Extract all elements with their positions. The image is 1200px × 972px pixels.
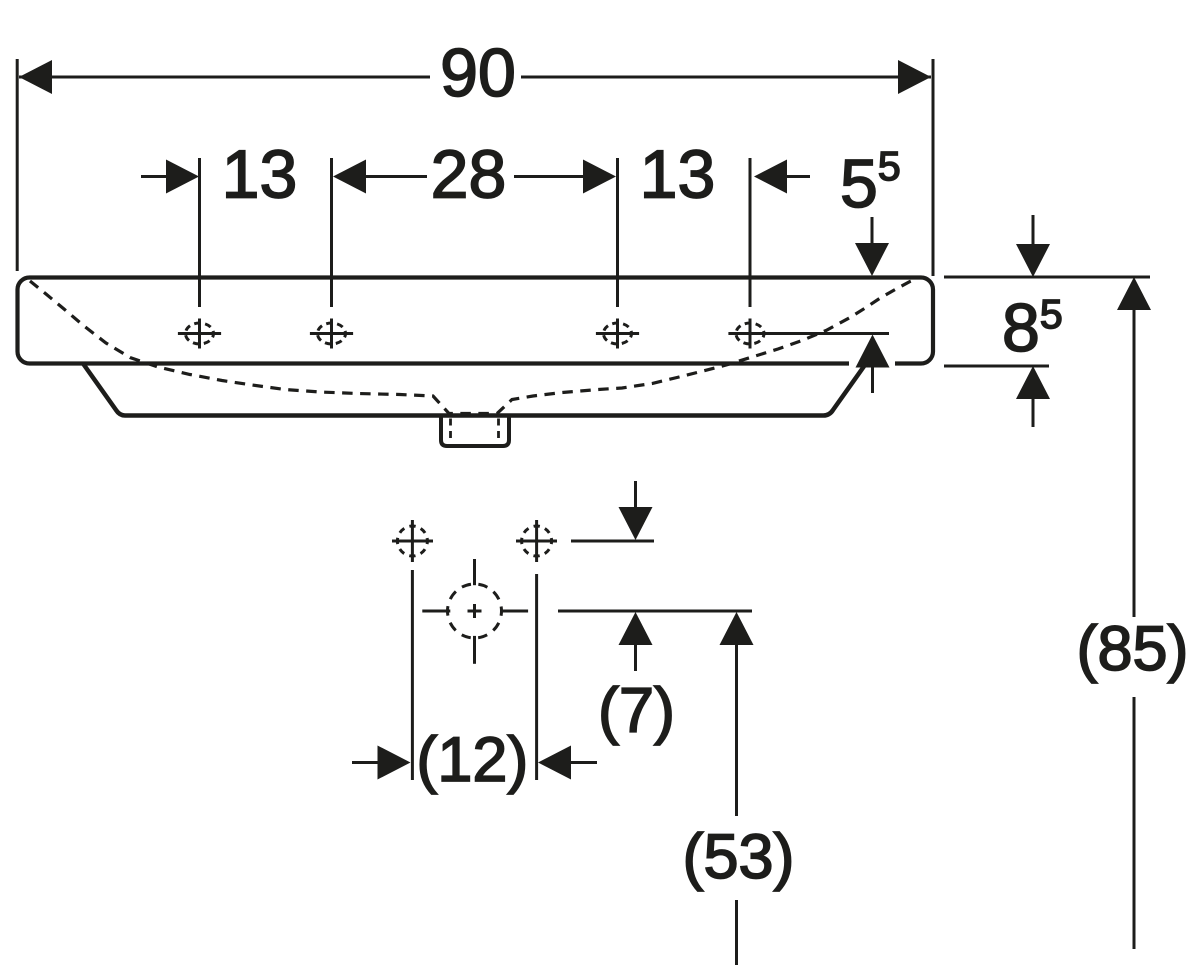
extension line tap hole 1 [198,158,201,307]
rim top reference line right [944,276,1150,279]
svg-text:13: 13 [222,137,298,213]
dim 85 line upper segment [1133,308,1136,617]
dim 53 up arrow [720,612,754,645]
siphon hole [422,559,528,664]
dim 90 left extension line [16,59,19,271]
extension line tap hole 2 [330,158,333,307]
dim 53 line upper segment [735,643,738,816]
dim 28 right arrow [583,160,616,194]
dim 28 right tail [514,175,585,178]
dim 85 up arrow [1117,277,1151,310]
dim 5.5 down arrow [855,243,889,276]
mounting holes reference line [571,540,654,543]
svg-text:(12): (12) [416,725,528,795]
siphon reference line [558,610,752,613]
drain spout [441,416,509,447]
dim 7 down arrow tail [634,481,637,510]
dim 90 arrow right [898,60,931,94]
dim 5.5 up arrow [856,335,890,368]
basin interior dashed curve [30,279,917,414]
dim 7 down arrow [619,507,653,540]
dim 12 right arrow tail [569,761,597,764]
dim 85 line lower segment [1133,697,1136,949]
dim 8.5 down arrow tail [1032,215,1035,247]
svg-text:(85): (85) [1076,614,1188,684]
dim 8.5 up arrow tail [1032,397,1035,427]
drain dashed line right [497,419,500,444]
mounting hole left [392,520,433,562]
dim 12 right arrow [538,746,571,780]
svg-text:85: 85 [1002,290,1063,366]
dim 12 left arrow [378,746,411,780]
dim 5.5 down arrow tail [871,217,874,246]
mounting hole right [516,520,557,562]
svg-text:(53): (53) [682,822,794,892]
dim 28 left tail [364,175,427,178]
dim 28 left arrow [333,160,366,194]
mounting hole right extension line [535,574,538,780]
dim 53 line lower segment [735,900,738,965]
dim 13 left arrow tail [141,175,168,178]
tap hole 4 [736,319,764,349]
dim 7 up arrow [619,612,653,645]
tap hole 2 [310,319,353,349]
dim 13 right arrow tail [785,175,810,178]
mounting hole left extension line [411,570,414,780]
svg-text:28: 28 [431,137,507,213]
dim 90 line right segment [521,76,931,79]
extension line tap hole 3 [616,158,619,307]
dim 12 left arrow tail [352,761,380,764]
dim 13 right arrow [754,160,787,194]
dim 5.5 up arrow tail [871,365,874,393]
drain dashed line left [449,419,452,444]
washbasin lower body [83,364,866,416]
tap hole 1 [178,319,221,349]
dim 13 left arrow [166,160,199,194]
dim 90 arrow left [19,60,52,94]
svg-text:90: 90 [440,35,516,111]
rim bottom reference line right [944,365,1049,368]
tap hole 3 [596,319,639,349]
dim 8.5 down arrow [1016,244,1050,277]
dim 90 right extension line [932,59,935,276]
extension line tap hole 4 [749,158,752,307]
dim 7 up arrow tail [634,643,637,671]
svg-text:13: 13 [640,137,716,213]
svg-text:55: 55 [840,143,901,222]
dim 5.5 reference line at tap hole axis [728,332,889,335]
washbasin rim outline [18,278,934,364]
dim 8.5 up arrow [1016,366,1050,399]
svg-text:(7): (7) [598,676,675,746]
dim 90 line left segment [19,76,430,79]
